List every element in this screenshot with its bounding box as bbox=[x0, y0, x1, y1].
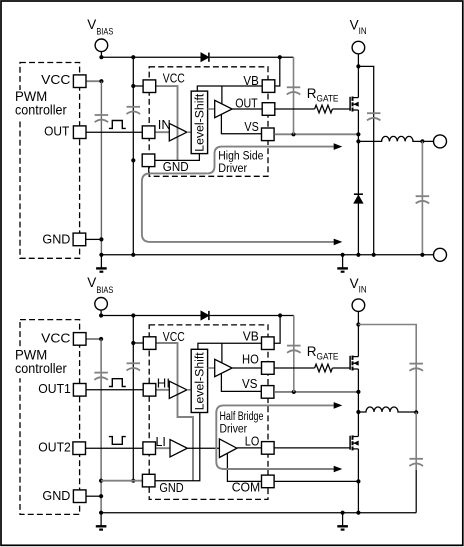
wire V_BIAS to top rail (top) bbox=[100, 52, 102, 58]
pulse waveform glyph OUT1 (bottom) bbox=[109, 379, 126, 387]
wire switch node column M1 source to M2 drain (bottom) bbox=[357, 369, 359, 436]
svg-text:RGATE: RGATE bbox=[307, 86, 339, 103]
level-shift block (bottom) bbox=[191, 349, 207, 412]
wire driver GND to level-shift (bottom) bbox=[143, 413, 200, 481]
pin OUT of driver (top) bbox=[262, 103, 275, 116]
ground symbol left (bottom) bbox=[96, 513, 107, 530]
wire V_IN to drain (bottom) bbox=[357, 312, 359, 357]
wire OUT to gate resistor (top) bbox=[275, 108, 314, 110]
wire LI buffer to LO buffer (bottom) bbox=[187, 447, 219, 449]
pin OUT1 of PWM controller (bottom) bbox=[73, 384, 86, 397]
terminal output positive (top) bbox=[434, 135, 447, 148]
terminal V_BIAS (bottom) bbox=[95, 298, 108, 311]
svg-text:Level-Shift: Level-Shift bbox=[194, 93, 206, 152]
wire output cap column (top) bbox=[421, 141, 423, 254]
pin COM of driver (bottom) bbox=[262, 475, 275, 488]
pin VS of driver (top) bbox=[262, 128, 275, 141]
svg-text:OUT: OUT bbox=[44, 124, 69, 139]
wire HO buffer to HO pin (bottom) bbox=[232, 367, 261, 369]
node driver VCC junction (bottom) bbox=[131, 341, 135, 345]
wire LO buffer to LO pin (bottom) bbox=[237, 447, 261, 449]
wire PWM GND stub (top) bbox=[86, 238, 101, 240]
capacitor C4 input bypass (top) bbox=[367, 113, 381, 120]
svg-text:GND: GND bbox=[163, 159, 189, 174]
svg-text:OUT2: OUT2 bbox=[38, 440, 71, 455]
pin LI of driver (bottom) bbox=[143, 442, 156, 455]
node rail-C2 junction (top) bbox=[131, 55, 135, 59]
svg-text:VCC: VCC bbox=[41, 331, 70, 346]
pin VCC of driver (bottom) bbox=[143, 337, 156, 350]
svg-text:controller: controller bbox=[15, 361, 67, 376]
node rail switch column (bottom) bbox=[356, 511, 360, 515]
wire VS to switch node (top) bbox=[274, 133, 358, 135]
wire driver VCC left stub (bottom) bbox=[133, 342, 143, 344]
terminal V_IN (top) bbox=[352, 41, 365, 54]
wire IN square to buffer (top) bbox=[155, 131, 170, 133]
transistor Q3 low-side MOSFET (bottom) bbox=[350, 435, 359, 450]
svg-text:Driver: Driver bbox=[218, 163, 247, 175]
node rail ground (bottom) bbox=[341, 511, 345, 515]
svg-text:VS: VS bbox=[242, 376, 258, 391]
node rail ground (top) bbox=[341, 253, 345, 257]
wire bootstrap cap column (bottom) bbox=[293, 316, 295, 392]
pulse waveform glyph (top) bbox=[109, 121, 126, 129]
node VS bootstrap junction (top) bbox=[291, 132, 295, 136]
wire gray return path upper with S-bend (top) bbox=[207, 147, 334, 174]
wire resistor to gate (top) bbox=[332, 108, 350, 110]
svg-text:Level-Shift: Level-Shift bbox=[194, 351, 206, 410]
Half Bridge Driver dashed box (bottom) bbox=[149, 325, 268, 500]
node rail-C7 junction (bottom) bbox=[131, 313, 135, 317]
svg-text:VCC: VCC bbox=[163, 71, 185, 86]
wire x=133 column lower to ground rail (top) bbox=[132, 160, 134, 254]
op-amp buffer U2B HO output buffer (bottom) bbox=[215, 359, 232, 376]
wire VCC decoupling column x=101 (top) bbox=[100, 81, 102, 255]
svg-text:HO: HO bbox=[242, 352, 259, 367]
pin GND of PWM controller (top) bbox=[73, 233, 86, 246]
arrowhead return path upper (top) bbox=[334, 143, 343, 150]
pin LO of driver (bottom) bbox=[262, 442, 275, 455]
High Side Driver dashed box (top) bbox=[149, 67, 268, 177]
wire GND stub down (top) bbox=[148, 166, 150, 172]
svg-text:Half Bridge: Half Bridge bbox=[220, 411, 264, 423]
svg-text:GND: GND bbox=[159, 480, 183, 495]
node rail input-cap column (top) bbox=[372, 253, 376, 257]
diode D2 freewheeling (top) bbox=[354, 194, 363, 203]
pin HO of driver (bottom) bbox=[262, 362, 275, 375]
svg-text:LI: LI bbox=[156, 434, 166, 449]
svg-text:GND: GND bbox=[42, 488, 70, 503]
wire switch node column (top) bbox=[357, 110, 359, 255]
label PWM text background (top) bbox=[14, 90, 52, 119]
ground symbol left (top) bbox=[96, 255, 107, 272]
wire top supply rail left segment (bottom) bbox=[101, 315, 201, 317]
wire VCC decoupling column x=101 (bottom) bbox=[100, 339, 102, 513]
node PWM GND junction (top) bbox=[99, 237, 103, 241]
pin VB of driver (top) bbox=[262, 80, 275, 93]
wire buffer to level-shift (top) bbox=[187, 131, 191, 133]
wire HO to gate resistor (bottom) bbox=[275, 367, 315, 369]
svg-text:controller: controller bbox=[15, 102, 67, 117]
node rail switch column (top) bbox=[356, 253, 360, 257]
svg-text:VCC: VCC bbox=[163, 329, 185, 344]
diode D1 bootstrap (top) bbox=[201, 53, 209, 62]
resistor R_GATE (top) bbox=[315, 105, 333, 113]
ground symbol right (top) bbox=[337, 255, 348, 272]
capacitor C3 bootstrap (top) bbox=[287, 87, 301, 94]
wire bootstrap cap column (top) bbox=[293, 57, 295, 134]
node inductor junction (top) bbox=[356, 139, 360, 143]
wire right column lower gray segment (bottom) bbox=[415, 412, 417, 470]
pin GND of driver (bottom) bbox=[142, 474, 155, 487]
wire V_IN to drain (top) bbox=[357, 54, 359, 98]
pin OUT2 of PWM controller (bottom) bbox=[73, 442, 86, 455]
transistor Q1 high-side MOSFET (top) bbox=[350, 97, 359, 112]
capacitor C1 PWM decoupling (top) bbox=[95, 115, 109, 122]
op-amp buffer U1A input buffer (top) bbox=[169, 123, 187, 140]
wire level-shift to HO buffer (bottom) bbox=[208, 367, 215, 369]
node inductor junction (bottom) bbox=[356, 410, 360, 414]
wire gray return C-path (bottom) bbox=[216, 405, 334, 469]
wire output buffer return to VS (top) bbox=[221, 114, 261, 133]
node VCC decoupling junction (bottom) bbox=[99, 337, 103, 341]
node V_BIAS-rail junction (bottom) bbox=[99, 313, 103, 317]
wire x=133 column upper (top) bbox=[132, 57, 134, 160]
arrowhead return path upper (bottom) bbox=[334, 402, 343, 409]
wire top supply rail right segment (top) bbox=[210, 56, 294, 58]
svg-text:VIN: VIN bbox=[350, 276, 367, 294]
node PWM GND junction (bottom) bbox=[99, 494, 103, 498]
wire VB internal supply to level-shift and HO buffer (bottom) bbox=[198, 343, 261, 363]
arrowhead return path lower (bottom) bbox=[334, 466, 343, 473]
wire level-shift to output buffer (top) bbox=[208, 108, 215, 110]
node rail-VB junction (bottom) bbox=[278, 313, 282, 317]
node VS switch junction (bottom) bbox=[356, 390, 360, 394]
node GND wire junction x101 (bottom) bbox=[99, 479, 103, 483]
wire LO buffer return to COM (bottom) bbox=[227, 453, 261, 481]
terminal V_BIAS (top) bbox=[95, 39, 108, 52]
node VCC decoupling junction (top) bbox=[99, 79, 103, 83]
wire VS to switch node (bottom) bbox=[274, 391, 358, 393]
wire HI buffer to level-shift (bottom) bbox=[187, 389, 191, 391]
capacitor C5 output (top) bbox=[416, 196, 430, 203]
wire x=133 column (bottom) bbox=[132, 316, 134, 481]
wire ground rail (top) bbox=[101, 254, 433, 256]
wire HI square to buffer (bottom) bbox=[156, 389, 169, 391]
svg-text:VB: VB bbox=[243, 73, 258, 88]
wire PWM GND stub (bottom) bbox=[86, 495, 101, 497]
terminal output negative (top) bbox=[434, 248, 447, 261]
capacitor C6 PWM decoupling (bottom) bbox=[94, 373, 108, 380]
wire input cap branch (top) bbox=[358, 66, 373, 254]
svg-text:GND: GND bbox=[42, 232, 70, 247]
PWM controller dashed box (top) bbox=[20, 63, 80, 259]
svg-text:VBIAS: VBIAS bbox=[87, 17, 113, 37]
wire LI square to buffer (bottom) bbox=[156, 447, 170, 449]
PWM controller dashed box (bottom) bbox=[20, 320, 80, 515]
wire M2 source to ground rail (bottom) bbox=[357, 449, 359, 513]
node V_IN input-cap junction (top) bbox=[356, 64, 360, 68]
wire ground rail (bottom) bbox=[101, 512, 416, 514]
op-amp buffer U1B output buffer (top) bbox=[215, 100, 232, 117]
wire PWM OUT to driver IN (top) bbox=[86, 131, 143, 133]
node rail x133 (top) bbox=[131, 253, 135, 257]
wire V_BIAS to rail (bottom) bbox=[100, 310, 102, 315]
pin HI of driver (bottom) bbox=[143, 384, 156, 397]
svg-text:VS: VS bbox=[244, 119, 259, 134]
pin VB of driver (bottom) bbox=[262, 337, 275, 350]
pin IN of driver (top) bbox=[142, 126, 155, 139]
op-amp buffer U2C LI input buffer (bottom) bbox=[170, 440, 187, 457]
pin OUT of PWM controller (top) bbox=[73, 126, 86, 139]
svg-text:OUT: OUT bbox=[235, 96, 258, 111]
pin GND of PWM controller (bottom) bbox=[73, 490, 86, 503]
svg-text:VBIAS: VBIAS bbox=[87, 275, 113, 295]
ground symbol right (bottom) bbox=[337, 513, 348, 530]
svg-text:High Side: High Side bbox=[218, 150, 263, 162]
capacitor C2 driver VCC decoupling (top) bbox=[127, 107, 141, 114]
wire driver GND to level-shift (top) bbox=[143, 154, 200, 161]
capacitor C10 lower output (bottom) bbox=[409, 459, 423, 466]
node driver VCC junction (top) bbox=[131, 84, 135, 88]
svg-text:OUT1: OUT1 bbox=[38, 381, 71, 396]
wire PWM VCC stub (top) bbox=[86, 80, 102, 82]
node rail-VB junction (top) bbox=[278, 55, 282, 59]
wire top supply rail left segment (top) bbox=[101, 56, 201, 58]
wire PWM OUT1 to driver HI (bottom) bbox=[86, 389, 143, 391]
node rail left end (bottom) bbox=[99, 511, 103, 515]
wire HO buffer return to VS (bottom) bbox=[221, 373, 261, 391]
wire V_IN branch to right column (bottom) bbox=[358, 325, 416, 413]
wire VB to top rail (top) bbox=[275, 57, 280, 86]
svg-text:LO: LO bbox=[245, 434, 260, 449]
inductor L1 (top) bbox=[358, 136, 433, 141]
node V_IN branch junction (bottom) bbox=[356, 322, 360, 326]
inductor L2 (bottom) bbox=[358, 407, 416, 412]
diode D3 bootstrap (bottom) bbox=[201, 311, 209, 320]
op-amp buffer U2A HI input buffer (bottom) bbox=[169, 381, 187, 398]
wire VB to rail (bottom) bbox=[275, 316, 281, 344]
wire LO to low-side gate (bottom) bbox=[275, 447, 351, 449]
transistor Q2 high-side MOSFET (bottom) bbox=[350, 356, 359, 371]
wire PWM OUT2 to driver LI (bottom) bbox=[86, 447, 143, 449]
node right column inductor junction (bottom) bbox=[414, 410, 418, 414]
wire COM to source column (bottom) bbox=[275, 480, 359, 482]
resistor R_GATE (bottom) bbox=[315, 364, 333, 372]
svg-text:Driver: Driver bbox=[220, 423, 248, 435]
wire top supply rail right segment (bottom) bbox=[210, 315, 294, 317]
wire right column lower black segment (bottom) bbox=[415, 470, 417, 513]
arrowhead return path lower (top) bbox=[334, 239, 343, 246]
node rail output-cap column (top) bbox=[420, 253, 424, 257]
svg-text:VB: VB bbox=[243, 329, 259, 344]
capacitor C8 bootstrap (bottom) bbox=[287, 346, 301, 353]
node COM junction (bottom) bbox=[356, 479, 360, 483]
wire driver GND left segment gray (bottom) bbox=[101, 480, 142, 482]
svg-text:RGATE: RGATE bbox=[307, 344, 339, 361]
level-shift block (top) bbox=[191, 91, 207, 154]
capacitor C9 upper output (bottom) bbox=[409, 364, 423, 371]
svg-text:HI: HI bbox=[157, 376, 170, 391]
capacitor C7 driver VCC decoupling (bottom) bbox=[127, 363, 141, 370]
node V_BIAS-rail junction (top) bbox=[99, 55, 103, 59]
wire PWM VCC stub (bottom) bbox=[86, 338, 101, 340]
svg-text:VCC: VCC bbox=[41, 72, 70, 87]
pin VCC of PWM controller (bottom) bbox=[73, 333, 86, 346]
pin GND of driver (top) bbox=[142, 154, 155, 167]
op-amp buffer U2D LO output buffer (bottom) bbox=[219, 439, 237, 458]
terminal V_IN (bottom) bbox=[352, 299, 365, 312]
wire VB internal supply to level-shift and output buffer (top) bbox=[197, 86, 261, 104]
pin VCC of PWM controller (top) bbox=[73, 75, 86, 88]
wire driver VCC elbow with jog (bottom) bbox=[156, 343, 193, 481]
pin VCC of driver (top) bbox=[143, 80, 156, 93]
svg-text:VIN: VIN bbox=[350, 18, 367, 36]
node rail left end (top) bbox=[99, 253, 103, 257]
node output cap top junction (top) bbox=[420, 139, 424, 143]
node VS bootstrap junction (bottom) bbox=[292, 390, 296, 394]
inverted pulse waveform glyph OUT2 (bottom) bbox=[109, 437, 126, 445]
wire gray return path lower with corners (top) bbox=[142, 173, 334, 242]
label PWM text background (bottom) bbox=[14, 349, 52, 378]
wire output buffer to OUT pin (top) bbox=[232, 108, 262, 110]
wire resistor to gate (bottom) bbox=[332, 367, 350, 369]
wire driver VCC elbow to internals (top) bbox=[156, 86, 178, 160]
node driver GND junction (bottom) bbox=[131, 479, 135, 483]
node VS switch junction (top) bbox=[356, 132, 360, 136]
wire driver VCC left stub (top) bbox=[133, 85, 143, 87]
svg-text:COM: COM bbox=[232, 479, 261, 494]
node driver GND junction (top) bbox=[131, 158, 135, 162]
pin VS of driver (bottom) bbox=[261, 386, 274, 399]
